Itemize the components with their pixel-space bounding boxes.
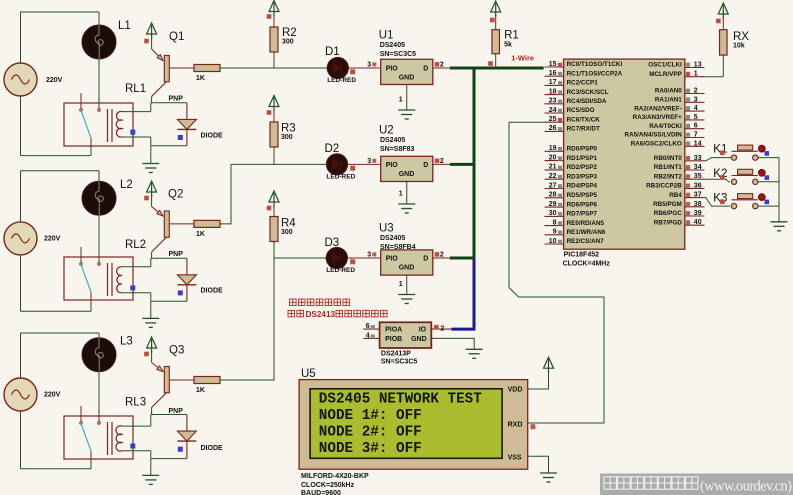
svg-text:15: 15 bbox=[549, 61, 557, 68]
svg-text:L1: L1 bbox=[118, 20, 131, 32]
svg-text:RA6/OSC2/CLKO: RA6/OSC2/CLKO bbox=[631, 141, 682, 148]
svg-text:8: 8 bbox=[553, 219, 557, 226]
relay RL1 core bbox=[107, 109, 109, 142]
power terminal above R3 bbox=[269, 96, 279, 112]
svg-text:D: D bbox=[423, 66, 428, 73]
svg-text:220V: 220V bbox=[44, 392, 61, 399]
U4 pin 4 RA2/AN2/VREF- bbox=[685, 110, 705, 112]
wire RC6/TX to LCD RXD bbox=[509, 122, 604, 423]
relay RL2 coil pin state marker bbox=[130, 285, 135, 290]
wire LED D2 to U2 pin 3 bbox=[348, 163, 381, 165]
wire node to diode D1 top bbox=[151, 102, 187, 104]
svg-text:RC1/T1OSI/CCP2A: RC1/T1OSI/CCP2A bbox=[567, 70, 623, 77]
relay RL1 body bbox=[64, 103, 133, 146]
wire bus blue vertical bbox=[473, 258, 476, 329]
wire relay RL2 coil top to node bbox=[122, 266, 151, 268]
svg-text:RA1/AN1: RA1/AN1 bbox=[655, 97, 682, 104]
svg-text:DIODE: DIODE bbox=[201, 288, 224, 295]
wire 1-wire bus vertical bbox=[473, 67, 476, 259]
wire K3 to ground rail bbox=[758, 205, 779, 207]
svg-text:1: 1 bbox=[399, 97, 403, 104]
U4 pin 24 RC5/SDO bbox=[545, 112, 564, 114]
svg-text:1: 1 bbox=[694, 71, 698, 78]
svg-text:SN=SC3C5: SN=SC3C5 bbox=[380, 51, 416, 58]
transistor Q3 base bar bbox=[164, 367, 169, 393]
ground LCD VSS bbox=[540, 473, 557, 482]
transistor Q3 collector bbox=[152, 393, 167, 408]
svg-text:220V: 220V bbox=[46, 77, 63, 84]
wire Q2 1K to row 2 jog bbox=[220, 164, 231, 224]
watermark banner bbox=[600, 474, 793, 495]
microcontroller U4 PIC18F452 body bbox=[564, 59, 685, 249]
transistor Q1 base bar bbox=[164, 56, 169, 82]
svg-text:OSC1/CLKI: OSC1/CLKI bbox=[648, 62, 682, 69]
U4 pin 10 RE2/CS/AN7 bbox=[545, 243, 564, 245]
power terminal above R2 bbox=[269, 1, 279, 17]
wire node to diode D3 top bbox=[151, 414, 187, 416]
U4 pin 18 RC3/SCK/SCL bbox=[545, 94, 564, 96]
svg-text:R2: R2 bbox=[282, 27, 297, 39]
relay RL3 body bbox=[64, 416, 133, 459]
transistor Q3 emitter arrow bbox=[152, 363, 163, 372]
svg-text:3: 3 bbox=[367, 252, 371, 259]
diode D2 state marker bbox=[178, 290, 183, 295]
U4 pin 33 RB0/INT0 bbox=[685, 160, 705, 162]
AC source V2 220V bbox=[4, 222, 37, 255]
LED D1 state marker bbox=[350, 69, 355, 74]
svg-text:14: 14 bbox=[694, 140, 702, 147]
U4 pin 34 RB1/INT1 bbox=[685, 169, 705, 171]
wire junction vertical 2 bbox=[150, 258, 152, 267]
wire R3 bottom bbox=[273, 147, 275, 164]
svg-text:R3: R3 bbox=[281, 123, 296, 135]
wire Q1 base to 1K bbox=[169, 67, 194, 69]
wire to ground block 3 bbox=[150, 459, 152, 476]
lamp L3 bbox=[82, 338, 116, 372]
svg-text:21: 21 bbox=[549, 164, 557, 171]
relay RL1 switch blade bbox=[81, 111, 91, 139]
svg-text:RC3/SCK/SCL: RC3/SCK/SCL bbox=[567, 89, 609, 96]
svg-text:LED-RED: LED-RED bbox=[327, 77, 356, 84]
diode D1 state marker bbox=[178, 135, 183, 140]
diode D3 state marker bbox=[178, 447, 183, 452]
relay RL1 coil pin state marker bbox=[130, 130, 135, 135]
svg-text:10: 10 bbox=[549, 238, 557, 245]
transistor Q2 base bar bbox=[164, 211, 169, 237]
svg-text:RC2/CCP1: RC2/CCP1 bbox=[567, 80, 599, 87]
LED D3 state marker bbox=[350, 259, 355, 264]
svg-text:GND: GND bbox=[411, 336, 427, 343]
U4 pin 28 RD5/PSP5 bbox=[545, 197, 564, 199]
wire lamp L2 top bbox=[98, 171, 100, 182]
wire LCD RXD marker bbox=[530, 424, 535, 429]
U3 pin 1 GND wire bbox=[406, 275, 408, 294]
U3 pin 2 wire bbox=[433, 257, 450, 259]
svg-text:RD6/PSP6: RD6/PSP6 bbox=[567, 201, 598, 208]
U4 pin 3 RA1/AN1 bbox=[685, 101, 705, 103]
svg-text:PNP: PNP bbox=[169, 251, 184, 258]
transistor Q2 power terminal bbox=[147, 181, 157, 197]
svg-text:SN=SC3C5: SN=SC3C5 bbox=[381, 358, 417, 365]
svg-text:SN=S8FB4: SN=S8FB4 bbox=[380, 244, 416, 251]
wire row 2 to LED D2 bbox=[231, 163, 326, 165]
wire lamp L2 to relay bbox=[98, 215, 100, 263]
ground block 2 bbox=[142, 318, 159, 327]
svg-text:NODE 3#: OFF: NODE 3#: OFF bbox=[319, 441, 422, 457]
wire U4 to K1 bbox=[705, 158, 732, 161]
svg-text:29: 29 bbox=[549, 201, 557, 208]
svg-text:300: 300 bbox=[282, 39, 294, 46]
IC U3 DS2405 bbox=[381, 250, 433, 275]
U4 pin 23 RC4/SDI/SDA bbox=[545, 103, 564, 105]
U4 pin 8 RE0/RD/AN5 bbox=[545, 225, 564, 227]
svg-text:RE1/WR/AN6: RE1/WR/AN6 bbox=[567, 229, 606, 236]
U4 pin 35 RB2/INT2 bbox=[685, 178, 705, 180]
wire lamp L1 top bbox=[98, 12, 100, 25]
svg-text:20: 20 bbox=[549, 154, 557, 161]
U4 pin 7 RA5/AN4/SS/LVDIN bbox=[685, 137, 705, 139]
wire diode D3 bottom bbox=[151, 458, 187, 460]
svg-text:16: 16 bbox=[549, 70, 557, 77]
LED D3 LED-RED bbox=[326, 247, 347, 268]
svg-text:RB5/PGM: RB5/PGM bbox=[653, 201, 682, 208]
relay RL2 core bbox=[107, 263, 109, 296]
svg-text:7: 7 bbox=[694, 132, 698, 139]
lamp L2 bbox=[82, 181, 116, 215]
svg-text:D2: D2 bbox=[325, 143, 340, 155]
U4 pin 17 RC2/CCP1 bbox=[545, 84, 564, 86]
IC U2 DS2405 bbox=[381, 156, 433, 181]
svg-text:DS2405 NETWORK TEST: DS2405 NETWORK TEST bbox=[319, 392, 482, 408]
svg-text:PIOB: PIOB bbox=[385, 336, 402, 343]
wire LED D3 to U3 pin 3 bbox=[347, 257, 380, 259]
svg-text:28: 28 bbox=[549, 192, 557, 199]
svg-text:RA3/AN3/VREF+: RA3/AN3/VREF+ bbox=[633, 114, 682, 121]
U4 pin 27 RD4/PSP4 bbox=[545, 188, 564, 190]
svg-text:2: 2 bbox=[440, 252, 444, 259]
LCD U5 screen bbox=[310, 389, 502, 459]
svg-text:RD4/PSP4: RD4/PSP4 bbox=[567, 183, 598, 190]
wire U4 to K3 bbox=[705, 198, 730, 207]
svg-text:NODE 1#: OFF: NODE 1#: OFF bbox=[319, 408, 422, 424]
svg-text:LED-RED: LED-RED bbox=[326, 267, 355, 274]
ground block 3 bbox=[142, 475, 159, 484]
transistor Q1 collector bbox=[152, 82, 167, 97]
svg-text:SN=S8F83: SN=S8F83 bbox=[380, 146, 415, 153]
wire relay RL2 coil bottom to node bbox=[122, 292, 151, 294]
svg-text:VDD: VDD bbox=[508, 387, 523, 394]
svg-text:34: 34 bbox=[694, 164, 702, 171]
resistor R1 5k bbox=[492, 30, 500, 54]
U4 pin 1 MCLR/VPP bbox=[685, 76, 705, 78]
U4 pin 14 RA6/OSC2/CLKO bbox=[685, 145, 705, 147]
wire relay RL3 coil top to node bbox=[122, 425, 151, 427]
ground U3 bbox=[398, 295, 415, 304]
svg-text:RA2/AN2/VREF-: RA2/AN2/VREF- bbox=[634, 105, 682, 112]
wire row 1 to LED D1 bbox=[220, 67, 327, 69]
svg-text:DS2405: DS2405 bbox=[380, 235, 405, 242]
relay RL3 coil pin state marker bbox=[130, 444, 135, 449]
U4 pin 19 RD0/PSP0 bbox=[545, 150, 564, 152]
svg-text:5k: 5k bbox=[504, 42, 512, 49]
svg-text:RB4: RB4 bbox=[669, 192, 682, 199]
svg-text:RB6/PGC: RB6/PGC bbox=[654, 210, 682, 217]
svg-text:CLOCK=250kHz: CLOCK=250kHz bbox=[301, 482, 355, 489]
svg-text:PNP: PNP bbox=[169, 96, 184, 103]
svg-text:RE0/RD/AN5: RE0/RD/AN5 bbox=[567, 220, 605, 227]
svg-text:PIO: PIO bbox=[386, 162, 399, 169]
svg-text:U5: U5 bbox=[301, 368, 316, 380]
red note line 2 bbox=[288, 310, 304, 317]
svg-text:RC7/RX/DT: RC7/RX/DT bbox=[567, 126, 600, 133]
U4 pin 13 OSC1/CLKI bbox=[685, 67, 705, 69]
wire 1-wire bus horizontal top bbox=[450, 67, 544, 70]
relay RL2 contact pins bbox=[80, 247, 100, 300]
relay RL1 coil bbox=[116, 111, 122, 137]
U4 pin 9 RE1/WR/AN6 bbox=[545, 234, 564, 236]
svg-text:U3: U3 bbox=[379, 223, 394, 235]
wire 1-wire bus U2 branch bbox=[450, 163, 476, 166]
U4 pin 30 RD7/PSP7 bbox=[545, 215, 564, 217]
svg-text:RB7/PGD: RB7/PGD bbox=[654, 219, 682, 226]
AC source V3 220V bbox=[4, 378, 37, 411]
wire RX top bbox=[722, 16, 724, 30]
relay RL2 switch blade bbox=[81, 265, 91, 293]
relay RL1 contact pins bbox=[80, 93, 100, 146]
svg-text:DIODE: DIODE bbox=[201, 133, 224, 140]
svg-text:DIODE: DIODE bbox=[201, 445, 224, 452]
red note line 1 bbox=[290, 299, 350, 306]
svg-text:RA0/AN0: RA0/AN0 bbox=[655, 88, 682, 95]
svg-text:DS2413: DS2413 bbox=[306, 310, 336, 319]
power terminal above R1 bbox=[491, 1, 501, 17]
svg-text:CLOCK=4MHz: CLOCK=4MHz bbox=[563, 261, 611, 268]
wire relay RL3 coil bottom to node bbox=[122, 450, 151, 452]
svg-text:38: 38 bbox=[694, 201, 702, 208]
svg-text:NODE 2#: OFF: NODE 2#: OFF bbox=[319, 425, 422, 441]
ground U6 bbox=[466, 349, 483, 358]
svg-text:(www.ourdev.cn): (www.ourdev.cn) bbox=[700, 479, 792, 495]
IC U1 DS2405 bbox=[381, 59, 433, 84]
svg-text:33: 33 bbox=[694, 155, 702, 162]
wire K1 to ground rail bbox=[758, 157, 779, 159]
svg-text:D: D bbox=[423, 256, 428, 263]
svg-text:PIOA: PIOA bbox=[385, 327, 402, 334]
svg-text:LED-RED: LED-RED bbox=[326, 174, 355, 181]
svg-text:RC5/SDO: RC5/SDO bbox=[567, 107, 595, 114]
svg-text:4: 4 bbox=[694, 105, 698, 112]
wire diode D2 bottom bbox=[151, 300, 187, 302]
U4 pin 16 RC1/T1OSI/CCP2A bbox=[545, 75, 564, 77]
svg-text:37: 37 bbox=[694, 192, 702, 199]
svg-text:6: 6 bbox=[366, 323, 370, 330]
svg-text:VSS: VSS bbox=[508, 455, 522, 462]
svg-text:26: 26 bbox=[549, 125, 557, 132]
svg-text:2: 2 bbox=[694, 88, 698, 95]
svg-text:23: 23 bbox=[549, 98, 557, 105]
freewheel diode (PNP) block 2 bbox=[186, 258, 188, 301]
U6 pin 4 PIOB bbox=[363, 337, 379, 339]
svg-text:4: 4 bbox=[366, 333, 370, 340]
push button K1 actuator bbox=[758, 145, 765, 152]
AC source V1 220V bbox=[4, 63, 37, 96]
svg-text:D3: D3 bbox=[325, 237, 340, 249]
U4 pin 21 RD2/PSP2 bbox=[545, 169, 564, 171]
transistor Q3 power terminal bbox=[147, 337, 157, 353]
wire to ground block 2 bbox=[150, 301, 152, 318]
svg-text:Q2: Q2 bbox=[168, 189, 183, 201]
svg-text:RD1/PSP1: RD1/PSP1 bbox=[567, 155, 598, 162]
wire RX bottom to MCLR bbox=[722, 55, 724, 77]
LED D2 LED-RED bbox=[326, 154, 347, 175]
svg-text:RB2/INT2: RB2/INT2 bbox=[654, 173, 682, 180]
svg-text:DS2405: DS2405 bbox=[380, 42, 405, 49]
relay RL2 body bbox=[64, 257, 133, 300]
svg-text:PIO: PIO bbox=[386, 66, 399, 73]
svg-text:24: 24 bbox=[549, 107, 557, 114]
svg-text:10k: 10k bbox=[733, 43, 745, 50]
svg-text:R1: R1 bbox=[504, 30, 519, 42]
svg-text:2: 2 bbox=[440, 62, 444, 69]
svg-text:MILFORD-4X20-BKP: MILFORD-4X20-BKP bbox=[301, 473, 369, 480]
svg-text:RE2/CS/AN7: RE2/CS/AN7 bbox=[567, 238, 605, 245]
power terminal above RX bbox=[718, 3, 728, 19]
ground U2 bbox=[398, 204, 415, 213]
U4 pin 6 RA4/T0CKI bbox=[685, 128, 705, 130]
power terminal LCD VDD bbox=[544, 357, 554, 373]
wire to ground block 1 bbox=[150, 146, 152, 164]
svg-text:RC0/T1OSO/T1CKI: RC0/T1OSO/T1CKI bbox=[567, 61, 623, 68]
svg-text:RD3/PSP3: RD3/PSP3 bbox=[567, 173, 598, 180]
wire LCD VSS bbox=[528, 456, 549, 473]
relay RL2 coil bbox=[117, 267, 122, 293]
wire AC2 top rail bbox=[21, 170, 100, 172]
lamp L1 bbox=[82, 25, 116, 59]
resistor RX 10k bbox=[720, 30, 728, 55]
U1 pin 1 GND wire bbox=[406, 85, 408, 111]
wire bus blue to DS2413 bbox=[452, 328, 476, 331]
svg-text:25: 25 bbox=[549, 116, 557, 123]
svg-text:300: 300 bbox=[281, 134, 293, 141]
svg-text:17: 17 bbox=[549, 79, 557, 86]
svg-text:RB3/CCP2B: RB3/CCP2B bbox=[646, 183, 682, 190]
U4 pin 15 RC0/T1OSO/T1CKI bbox=[545, 66, 564, 68]
U4 pin 20 RD1/PSP1 bbox=[545, 160, 564, 162]
wire relay RL1 coil top to node bbox=[122, 111, 151, 113]
svg-text:RB0/INT0: RB0/INT0 bbox=[654, 155, 682, 162]
wire K buttons ground rail bbox=[778, 158, 780, 222]
U4 pin 37 RB4 bbox=[685, 197, 705, 199]
power terminal above R4 bbox=[269, 191, 279, 207]
wire K2 to ground rail bbox=[758, 181, 779, 183]
svg-text:1: 1 bbox=[399, 281, 403, 288]
wire R1 bottom bbox=[495, 54, 497, 68]
wire lamp L1 to relay bbox=[98, 59, 100, 109]
relay RL3 core bbox=[107, 422, 109, 455]
svg-text:2: 2 bbox=[440, 158, 444, 165]
svg-text:DS2405: DS2405 bbox=[380, 137, 405, 144]
svg-text:22: 22 bbox=[549, 173, 557, 180]
wire Q1 emitter bbox=[151, 36, 153, 49]
ground U1 bbox=[398, 110, 415, 119]
svg-text:18: 18 bbox=[549, 88, 557, 95]
svg-text:RD7/PSP7: RD7/PSP7 bbox=[567, 211, 598, 218]
svg-text:RB1/INT1: RB1/INT1 bbox=[654, 164, 682, 171]
wire AC3 bottom rail bbox=[21, 468, 92, 470]
wire Q3 emitter bbox=[151, 350, 153, 363]
svg-text:RL3: RL3 bbox=[125, 397, 146, 409]
U2 pin 2 wire bbox=[433, 163, 450, 165]
svg-text:39: 39 bbox=[694, 210, 702, 217]
wire Q3 base to 1K bbox=[169, 379, 194, 381]
svg-text:GND: GND bbox=[399, 171, 415, 178]
svg-text:L2: L2 bbox=[120, 179, 133, 191]
svg-text:PIC18F452: PIC18F452 bbox=[564, 252, 600, 259]
ground block 1 bbox=[142, 164, 159, 173]
U4 pin 38 RB5/PGM bbox=[685, 206, 705, 208]
svg-text:Q3: Q3 bbox=[169, 345, 184, 357]
svg-text:RC6/TX/CK: RC6/TX/CK bbox=[567, 116, 601, 123]
wire R1 top bbox=[495, 14, 497, 30]
transistor Q1 emitter arrow bbox=[152, 49, 163, 61]
wire Q2 emitter bbox=[151, 194, 153, 207]
svg-text:RC4/SDI/SDA: RC4/SDI/SDA bbox=[567, 98, 607, 105]
wire R4 bottom bbox=[273, 242, 275, 259]
relay RL3 coil bbox=[116, 426, 122, 451]
resistor 1K (Q1) bbox=[194, 65, 220, 72]
IC U6 DS2413P bbox=[380, 322, 432, 348]
svg-text:40: 40 bbox=[694, 219, 702, 226]
LCD U5 body bbox=[299, 380, 528, 470]
svg-text:RA4/T0CKI: RA4/T0CKI bbox=[649, 123, 682, 130]
wire R4 top bbox=[273, 204, 275, 217]
svg-text:RA5/AN4/SS/LVDIN: RA5/AN4/SS/LVDIN bbox=[625, 132, 683, 139]
push button K2 actuator bbox=[758, 169, 765, 176]
wire R2 top bbox=[273, 14, 275, 28]
svg-text:RD2/PSP2: RD2/PSP2 bbox=[567, 164, 598, 171]
wire junction vertical 1 bbox=[150, 103, 152, 112]
U4 pin 39 RB6/PGC bbox=[685, 215, 705, 217]
svg-text:MCLR/VPP: MCLR/VPP bbox=[649, 71, 682, 78]
wire AC1 bottom rail bbox=[21, 155, 92, 157]
U4 pin 2 RA0/AN0 bbox=[685, 93, 705, 95]
svg-text:Q1: Q1 bbox=[169, 31, 184, 43]
svg-text:30: 30 bbox=[549, 210, 557, 217]
U4 pin 25 RC6/TX/CK bbox=[545, 121, 564, 123]
svg-text:1-Wire: 1-Wire bbox=[511, 54, 534, 63]
svg-text:5: 5 bbox=[694, 114, 698, 121]
wire node to diode D2 top bbox=[151, 257, 187, 259]
svg-text:D1: D1 bbox=[325, 46, 340, 58]
freewheel diode (PNP) block 3 bbox=[186, 415, 188, 459]
U2 pin 1 GND wire bbox=[406, 182, 408, 205]
wire LED D1 to U1 pin 3 bbox=[348, 67, 380, 69]
svg-text:2: 2 bbox=[440, 325, 444, 332]
svg-text:35: 35 bbox=[694, 173, 702, 180]
relay RL3 contact pins bbox=[80, 406, 100, 459]
svg-text:L3: L3 bbox=[120, 336, 133, 348]
relay RL3 switch blade bbox=[81, 424, 91, 452]
U4 pin 40 RB7/PGD bbox=[685, 224, 705, 226]
svg-text:1K: 1K bbox=[196, 387, 205, 394]
U4 pin 29 RD6/PSP6 bbox=[545, 206, 564, 208]
U6 GND wire bbox=[431, 338, 474, 349]
resistor R2 300 bbox=[270, 27, 278, 52]
svg-text:RD0/PSP0: RD0/PSP0 bbox=[567, 146, 598, 153]
wire AC1 top rail bbox=[21, 11, 100, 13]
svg-text:1: 1 bbox=[399, 191, 403, 198]
wire relay RL1 coil bottom to node bbox=[122, 136, 151, 138]
